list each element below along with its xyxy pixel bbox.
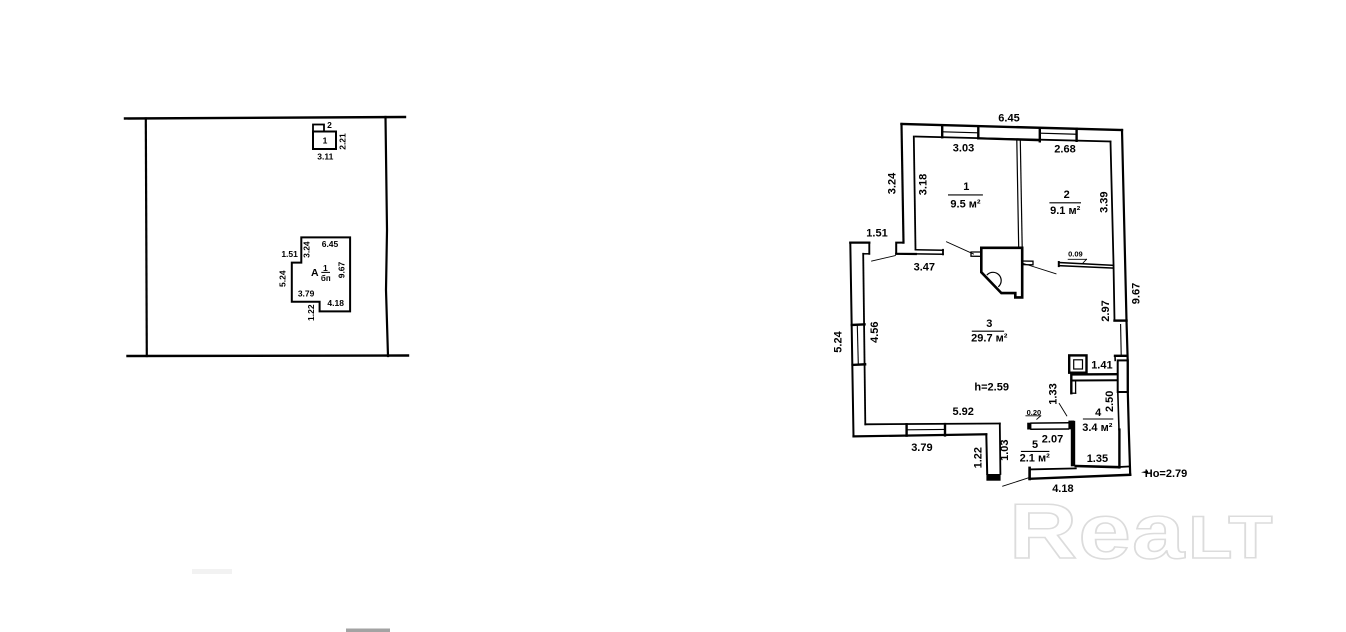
height mark arrow	[1141, 471, 1148, 474]
right wall inner below door	[1118, 392, 1119, 430]
svg-text:Rea: Rea	[1009, 489, 1186, 575]
room2 bottom wall	[1059, 263, 1114, 266]
svg-text:1: 1	[963, 181, 969, 193]
0.09 underline + tick	[1068, 258, 1086, 260]
room5 top wall	[1027, 423, 1031, 430]
svg-text:h=2.59: h=2.59	[974, 381, 1009, 393]
svg-text:9.1 м²: 9.1 м²	[1050, 205, 1080, 217]
window A caps	[941, 125, 943, 137]
svg-text:3.11: 3.11	[317, 151, 333, 161]
svg-text:5.24: 5.24	[278, 270, 288, 287]
svg-text:1.33: 1.33	[1048, 383, 1060, 404]
shed rect 1	[313, 132, 336, 150]
shed rect 2	[313, 125, 324, 132]
svg-text:2.68: 2.68	[1054, 144, 1075, 156]
south window caps	[905, 424, 907, 435]
flue box	[1069, 355, 1086, 372]
stove left stub	[971, 252, 981, 256]
svg-text:2: 2	[1064, 189, 1070, 201]
svg-text:1.51: 1.51	[281, 249, 298, 259]
svg-text:3.47: 3.47	[914, 262, 935, 274]
svg-text:3.79: 3.79	[298, 289, 315, 299]
svg-text:А: А	[311, 267, 319, 279]
room1 west wall foot	[896, 243, 903, 254]
svg-text:1: 1	[323, 263, 328, 273]
svg-text:1.22: 1.22	[306, 304, 316, 321]
svg-text:4.18: 4.18	[327, 298, 344, 308]
svg-text:2.07: 2.07	[1042, 433, 1063, 445]
leader 1.51 opening	[872, 256, 896, 262]
room3 bottom wall inner	[865, 423, 1000, 426]
fraction bars	[948, 195, 1113, 452]
svg-text:1.41: 1.41	[1091, 360, 1112, 372]
svg-text:2.21: 2.21	[338, 133, 348, 150]
stove	[981, 248, 1022, 298]
wall rooms 5/4 (solid)	[1071, 421, 1075, 467]
0.20 underline + tick	[1026, 415, 1041, 417]
svg-text:2.1 м²: 2.1 м²	[1020, 453, 1050, 465]
svg-text:2: 2	[327, 120, 332, 130]
west window midline	[857, 326, 858, 365]
faint bottom marks	[346, 629, 390, 632]
boundary right	[386, 117, 389, 356]
svg-text:3.79: 3.79	[911, 442, 932, 454]
svg-text:4.56: 4.56	[869, 321, 881, 342]
partition rooms 1/2	[1017, 140, 1019, 248]
room3 west wall inner	[863, 254, 865, 424]
watermark Realt	[1009, 489, 1274, 575]
svg-text:1.22: 1.22	[973, 447, 985, 468]
1.33 leader	[1059, 404, 1067, 416]
boundary top	[125, 117, 405, 119]
room1 west wall inner	[914, 137, 916, 250]
window B cap right	[1075, 129, 1077, 141]
top wall outer	[902, 124, 1123, 130]
south window midline	[907, 428, 944, 430]
window B midline	[1041, 133, 1076, 134]
floor plan texts	[833, 113, 1188, 496]
svg-text:3.24: 3.24	[887, 172, 899, 194]
room4 east bold inner	[1118, 430, 1120, 468]
middle box caps	[1039, 130, 1041, 142]
svg-text:3.4 м²: 3.4 м²	[1082, 422, 1112, 434]
svg-text:5.92: 5.92	[952, 406, 973, 418]
svg-text:9.5 м²: 9.5 м²	[950, 199, 980, 211]
svg-text:бп: бп	[321, 274, 331, 283]
fraction bar A	[321, 271, 330, 273]
door box right wall	[1118, 360, 1128, 392]
svg-text:5: 5	[1032, 439, 1038, 451]
boundary bottom	[128, 354, 409, 357]
svg-text:1: 1	[323, 135, 328, 145]
vestibule west wall	[985, 434, 988, 474]
svg-text:LT: LT	[1188, 505, 1274, 572]
svg-text:6.45: 6.45	[322, 239, 339, 249]
svg-text:1.51: 1.51	[866, 228, 887, 240]
entrance leader	[1003, 478, 1030, 487]
room4 bottom bold	[1076, 466, 1119, 467]
room1 west wall outer	[902, 124, 904, 243]
svg-text:2.50: 2.50	[1104, 391, 1116, 412]
middle box bottom bold	[978, 138, 1040, 140]
svg-text:0.20: 0.20	[1027, 408, 1042, 417]
stove right stub	[1022, 261, 1033, 265]
svg-text:3: 3	[986, 318, 992, 330]
door leader rooms 2/3	[1024, 264, 1057, 274]
svg-text:3.24: 3.24	[302, 241, 312, 258]
svg-text:3.03: 3.03	[953, 143, 974, 155]
svg-text:6.45: 6.45	[998, 113, 1019, 125]
stove arc	[987, 272, 1001, 286]
room4 top wall	[1073, 373, 1117, 376]
vestibule west wall foot (bold)	[986, 474, 1000, 481]
south wall lower (vestibule+room4)	[1030, 475, 1131, 479]
svg-text:9.67: 9.67	[337, 261, 347, 278]
svg-text:Но=2.79: Но=2.79	[1145, 468, 1188, 480]
window A midline	[943, 132, 978, 133]
svg-text:9.67: 9.67	[1131, 283, 1143, 304]
room3 bottom wall outer	[854, 434, 987, 436]
right wall outer	[1122, 130, 1130, 475]
svg-text:1.35: 1.35	[1087, 453, 1108, 465]
door leader room1	[947, 242, 974, 254]
room3 west wall cap	[850, 242, 869, 244]
top wall inner	[916, 137, 1111, 142]
svg-text:29.7 м²: 29.7 м²	[971, 333, 1008, 345]
svg-text:3.18: 3.18	[918, 174, 930, 195]
svg-text:1.03: 1.03	[999, 439, 1011, 460]
room3 west wall outer	[850, 243, 853, 437]
building A outline	[292, 237, 350, 311]
svg-text:0.09: 0.09	[1068, 250, 1083, 259]
room1 bottom wall	[916, 249, 944, 251]
svg-text:2.97: 2.97	[1100, 300, 1112, 321]
right wall inner upper	[1111, 142, 1115, 321]
west window caps	[852, 323, 865, 326]
right wall window	[1120, 325, 1123, 356]
svg-text:4: 4	[1095, 407, 1102, 419]
boundary left	[146, 119, 147, 357]
svg-text:5.24: 5.24	[833, 330, 845, 352]
right wall inner segment under window	[1114, 356, 1116, 361]
svg-text:3.39: 3.39	[1099, 191, 1111, 212]
